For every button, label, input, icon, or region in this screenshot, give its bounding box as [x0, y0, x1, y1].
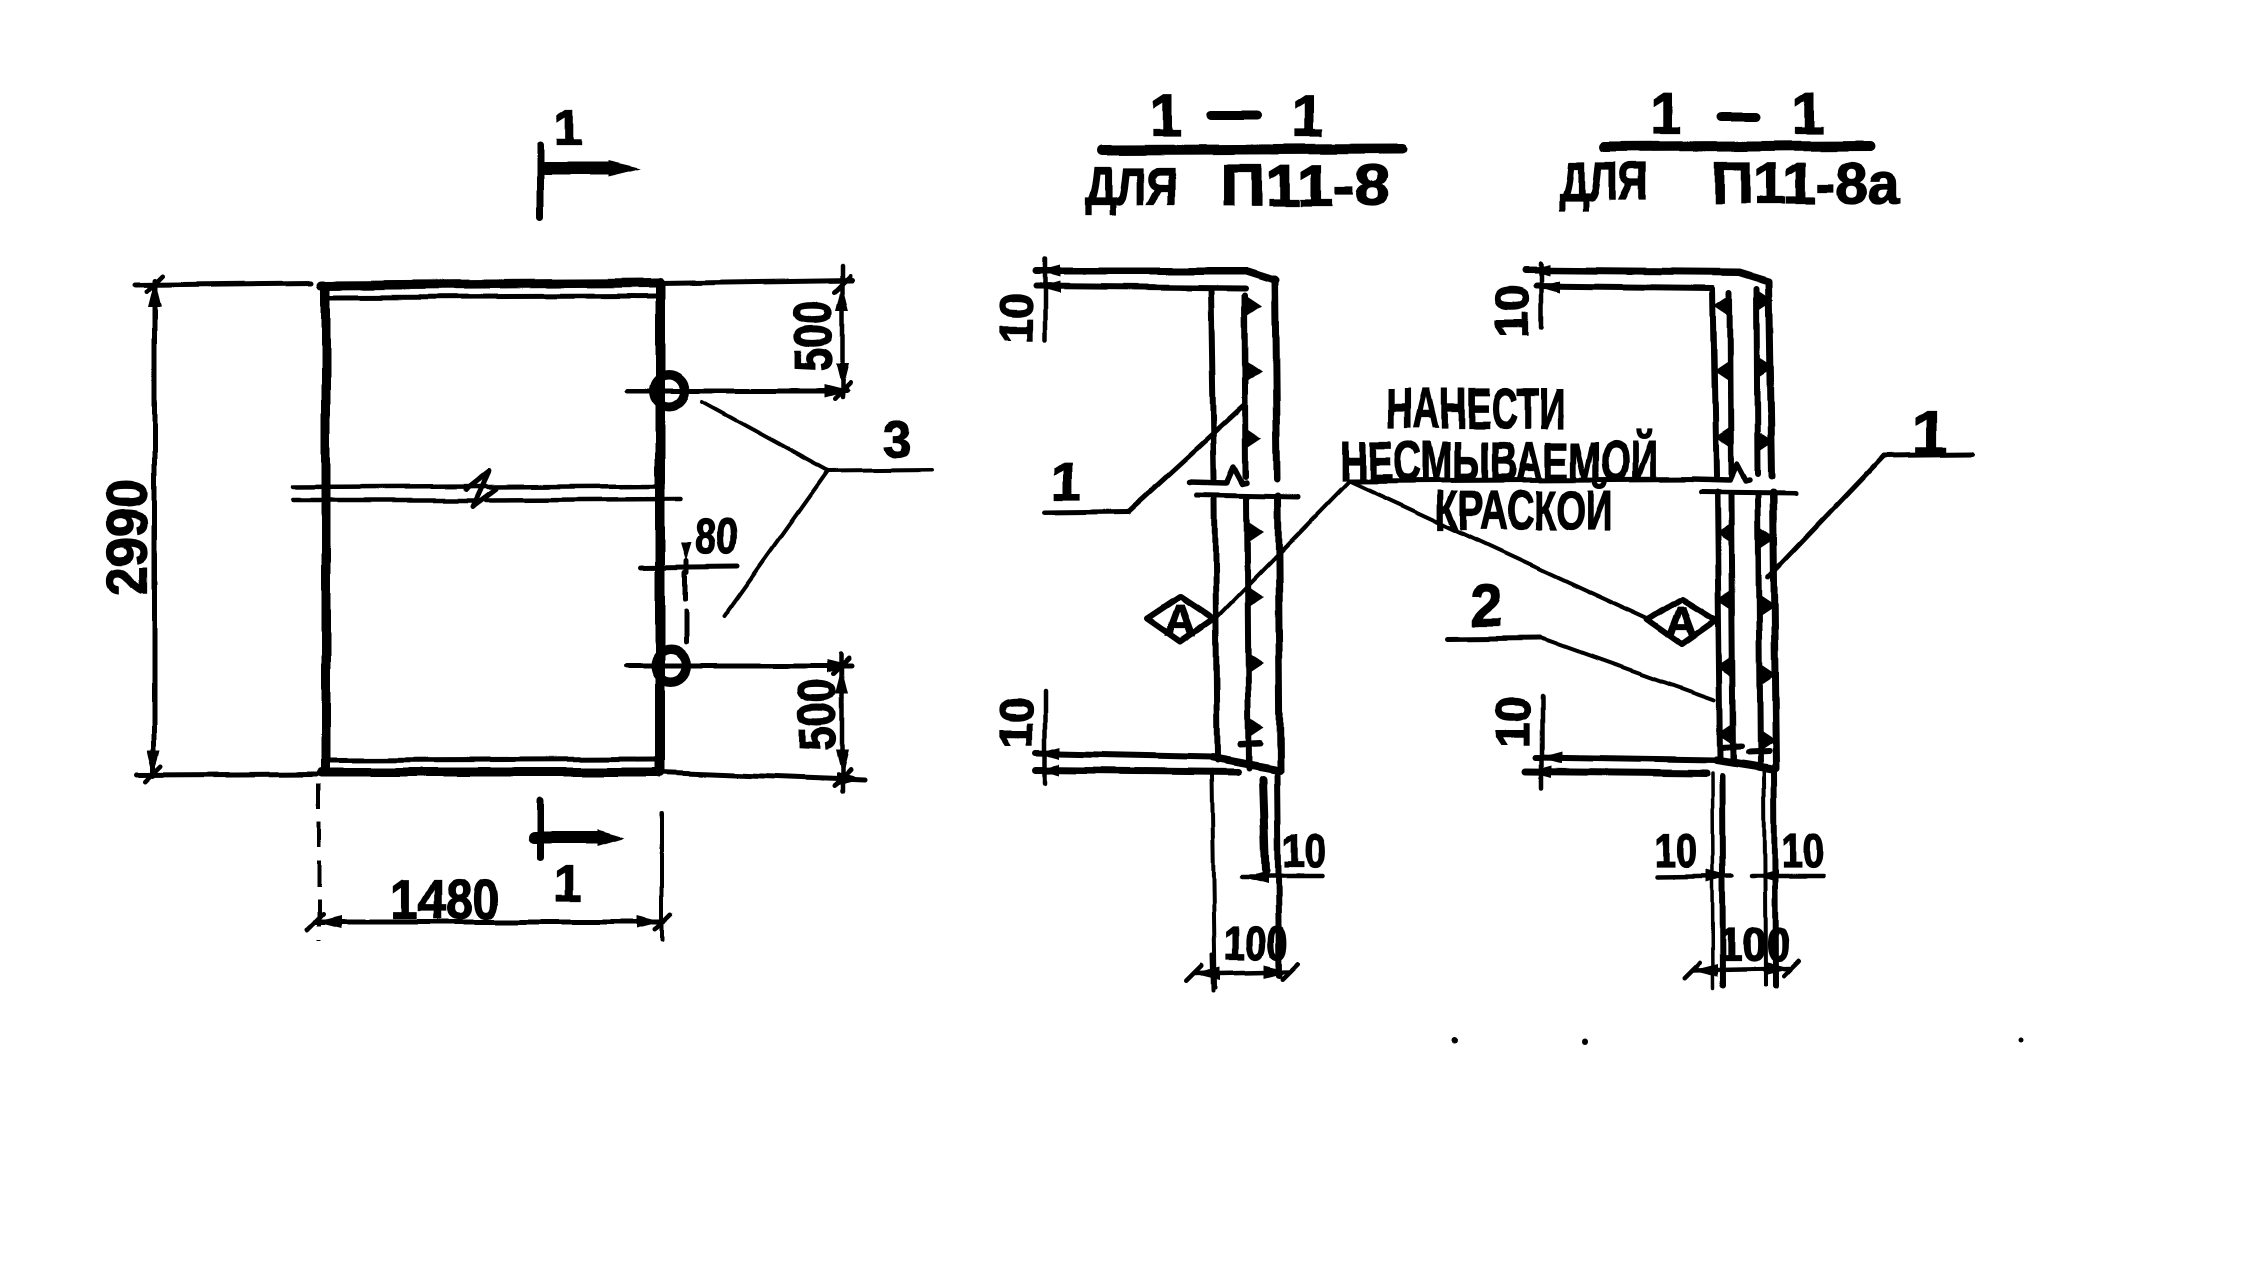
svg-text:ДЛЯ: ДЛЯ [1085, 157, 1177, 217]
hook loop bottom axis line [626, 664, 852, 669]
svg-text:А: А [1666, 598, 1698, 647]
svg-text:ДЛЯ: ДЛЯ [1560, 152, 1649, 212]
svg-text:100: 100 [1224, 917, 1288, 969]
svg-text:П11-8а: П11-8а [1712, 152, 1901, 217]
dimension 100 (bottom of 1-1a) [1692, 968, 1791, 970]
break symbol in section 1-1 [1189, 467, 1247, 484]
svg-text:1: 1 [554, 856, 582, 912]
extension dashes from 80 down to bottom hook [683, 572, 688, 600]
svg-text:80: 80 [696, 508, 738, 564]
paper specks [1452, 1038, 1458, 1044]
section marker 1 (bottom) [537, 800, 544, 858]
svg-text:1: 1 [554, 100, 582, 156]
paint mark diamond A (section 1-1) [1148, 597, 1214, 642]
svg-text:2: 2 [1471, 574, 1503, 639]
top flange of section 1-1a [1526, 270, 1769, 281]
hook loop top [653, 375, 685, 407]
break line across panel [293, 486, 486, 487]
right rebar with periodic profile (section 1-1a) [1757, 288, 1758, 474]
dimension 10 (bottom of 1-1) [1242, 874, 1322, 879]
paint mark diamond A (section 1-1a) [1648, 599, 1716, 644]
svg-text:1: 1 [1053, 453, 1082, 511]
hook loop bottom [655, 650, 687, 682]
bottom flange of section 1-1a [1536, 758, 1716, 761]
note underline [1349, 479, 1700, 481]
leader line 3 to hook loops [702, 402, 828, 471]
panel outline [322, 283, 660, 285]
dimension 10 (bottom left rebar cover of 1-1a) [1658, 876, 1732, 877]
svg-text:500: 500 [789, 679, 847, 752]
left rebar with periodic profile (section 1-1a) [1730, 292, 1731, 474]
dimension 10 (top left of 1-1a) [1539, 263, 1544, 327]
web face lines of section 1-1a [1713, 288, 1716, 476]
rebar with periodic profile (section 1-1) [1245, 295, 1246, 477]
svg-text:10: 10 [990, 696, 1042, 748]
section marker 1 (top) [537, 145, 544, 217]
bottom flange of section 1-1 [1036, 753, 1212, 757]
leader from note to diamond A of section 1-1a [1349, 481, 1650, 620]
dimension 1480 (bottom) [317, 783, 321, 940]
hook loop top axis line [627, 389, 846, 394]
svg-text:1: 1 [1792, 82, 1824, 147]
rebar outlets below section 1-1a [1712, 774, 1713, 988]
dimension 500 (top right) [660, 280, 852, 283]
svg-text:1: 1 [1150, 84, 1182, 149]
dimension 10 (top left of 1-1) [1043, 259, 1048, 340]
svg-text:П11-8: П11-8 [1221, 154, 1390, 219]
svg-text:100: 100 [1719, 918, 1790, 970]
rebar outlet below section 1-1 [1212, 775, 1215, 987]
leader from note to diamond A of section 1-1 [1216, 481, 1349, 618]
dimension 10 (bottom right rebar cover of 1-1a) [1752, 874, 1824, 879]
svg-text:500: 500 [785, 301, 843, 372]
svg-text:10: 10 [1282, 825, 1326, 877]
dimension 10 (bottom left of 1-1a) [1540, 695, 1545, 788]
break symbol in section 1-1a [1692, 464, 1750, 481]
dimension 2990 (left) [135, 283, 312, 285]
dimension 10 (bottom left of 1-1) [1043, 691, 1048, 783]
dimension 100 (bottom of 1-1) [1212, 955, 1213, 990]
svg-text:2990: 2990 [96, 479, 159, 595]
svg-text:10: 10 [1486, 286, 1538, 338]
dimension 500 (bottom right) [660, 772, 864, 780]
svg-text:10: 10 [990, 293, 1042, 343]
svg-text:1: 1 [1912, 397, 1948, 469]
svg-text:А: А [1165, 597, 1197, 646]
svg-text:10: 10 [1782, 825, 1825, 877]
svg-text:1: 1 [1291, 85, 1323, 150]
svg-text:1: 1 [1650, 82, 1682, 147]
top flange of section 1-1 [1036, 271, 1276, 280]
web face lines of section 1-1 [1211, 288, 1214, 479]
svg-text:10: 10 [1656, 825, 1697, 877]
svg-text:3: 3 [883, 411, 912, 469]
svg-text:1480: 1480 [390, 868, 500, 931]
svg-text:10: 10 [1487, 696, 1539, 748]
